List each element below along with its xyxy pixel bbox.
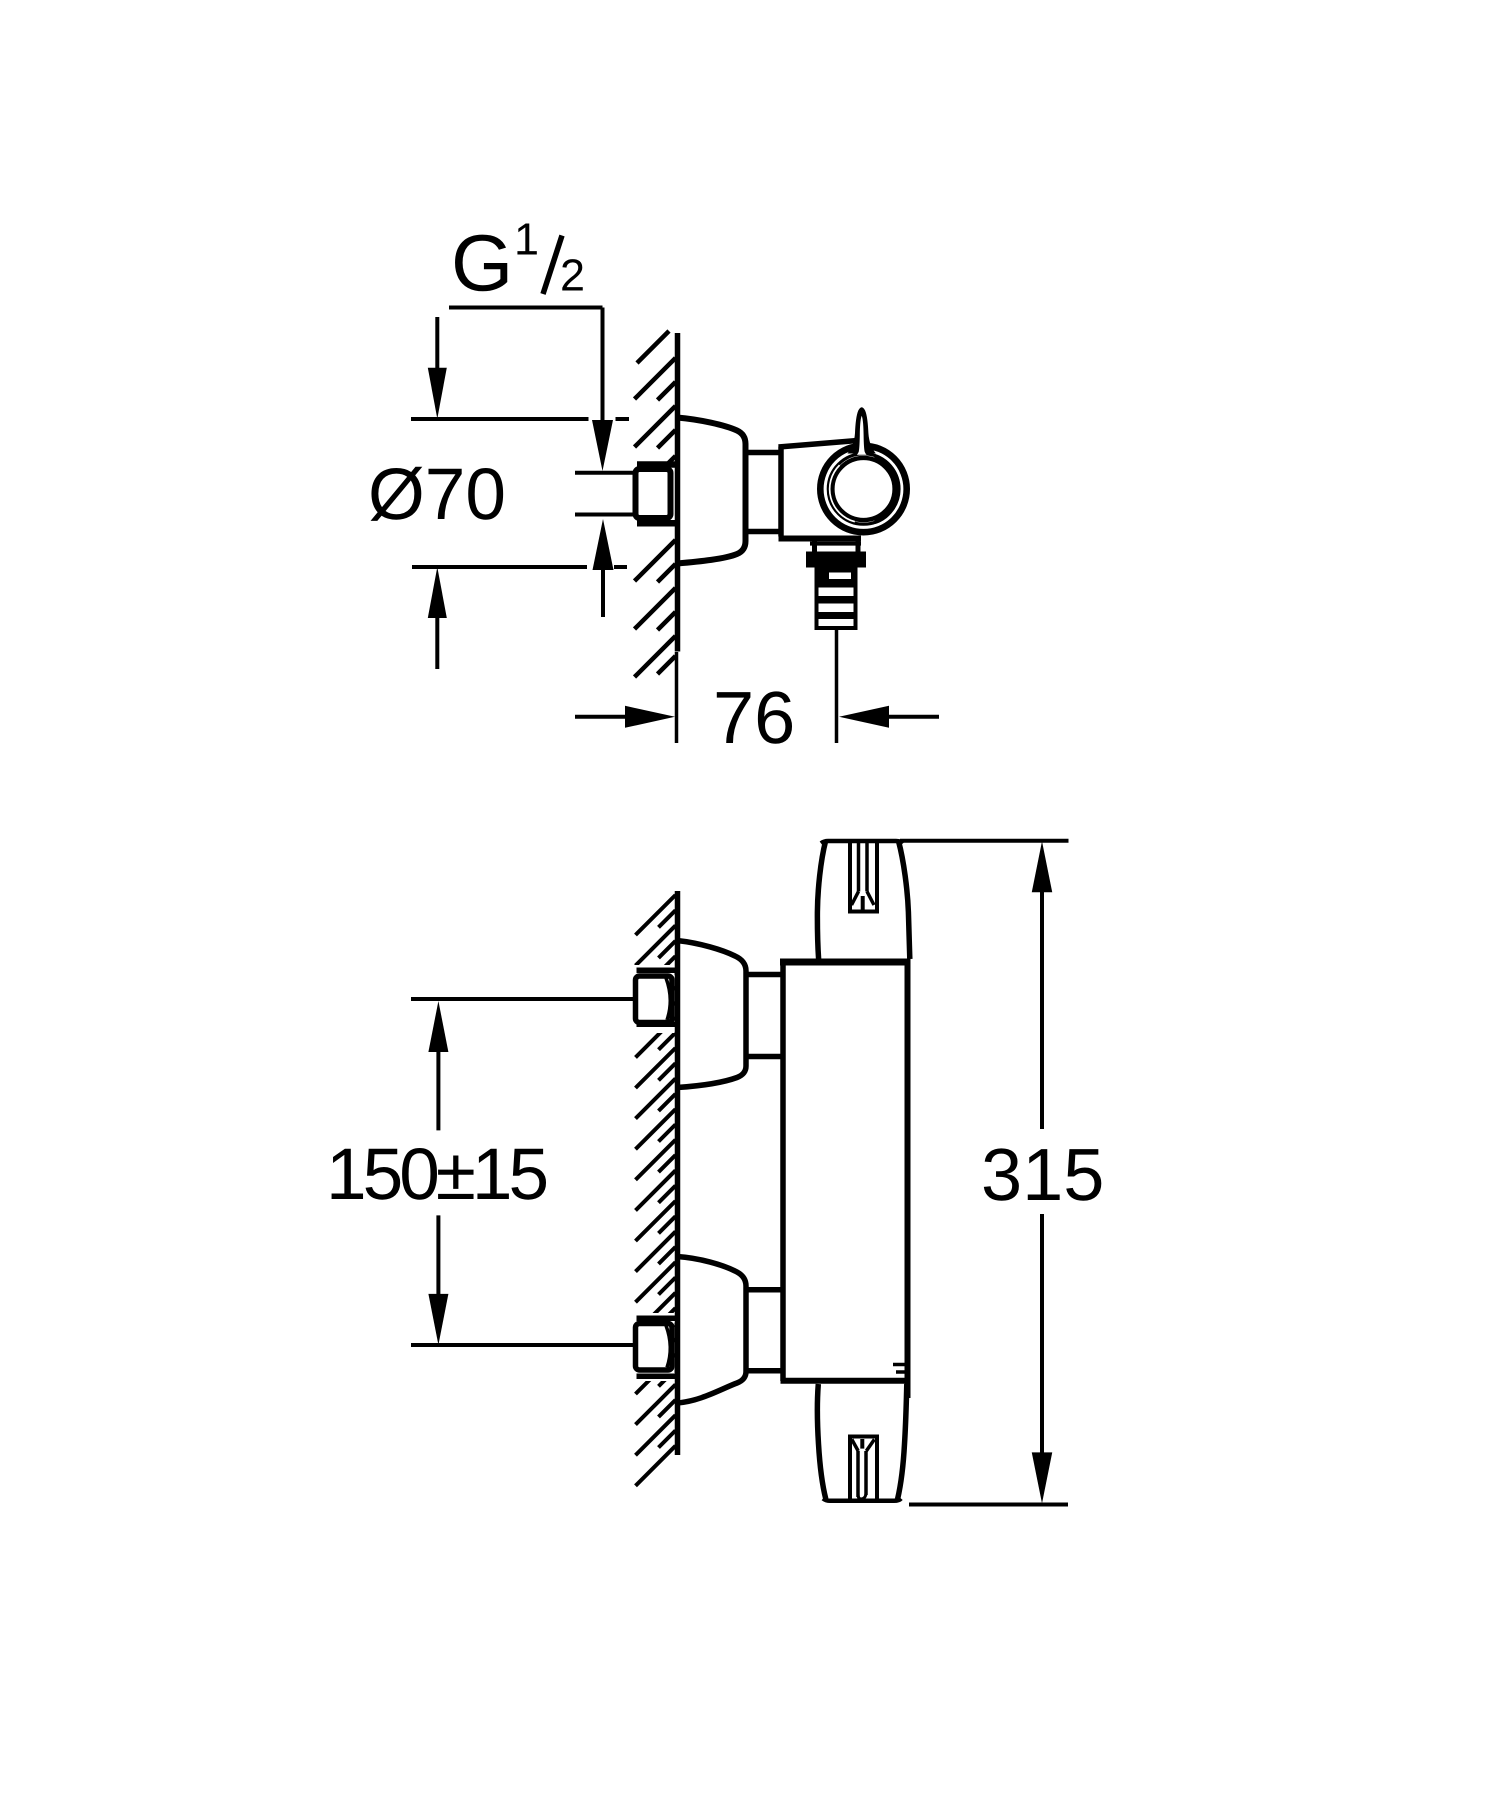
top view: hose barb connector xyxy=(815,568,858,631)
front view: top knob grip detail xyxy=(848,841,852,912)
front view: top knob (temperature handle) xyxy=(817,841,825,959)
svg-text:315: 315 xyxy=(981,1133,1104,1216)
front view: upper union nut flange bars xyxy=(637,968,678,974)
dimension 150±15 xyxy=(411,997,635,1001)
front view: valve body rectangle xyxy=(780,962,786,1381)
front view: lower union nut flange bars xyxy=(637,1316,678,1322)
svg-text:150±15: 150±15 xyxy=(326,1134,546,1215)
top view: outlet stub below body xyxy=(812,539,817,552)
top view: inner band merge on right side xyxy=(875,457,898,521)
front view: upper escutcheon dome edge behind nut xyxy=(666,978,670,1020)
top view: thin white split arc lower-left xyxy=(830,465,855,522)
top view: wall face line xyxy=(675,333,681,652)
front view: wall face line xyxy=(675,891,681,1455)
front view: clip mark on body right edge xyxy=(893,1363,906,1367)
front view: lower square union nut xyxy=(636,1324,673,1371)
front view: lower escutcheon dome edge behind nut xyxy=(666,1326,670,1368)
svg-text:G: G xyxy=(451,219,513,308)
top view: union nut flange bars xyxy=(637,461,677,468)
dimension line G 1/2 xyxy=(449,306,603,310)
dimension Ø70 arrows and extension lines xyxy=(435,317,439,372)
front view: upper square union nut xyxy=(636,976,673,1023)
front view: bottom knob grip detail xyxy=(848,1435,852,1501)
top view: S-union connector xyxy=(746,450,782,456)
top view: valve body xyxy=(778,447,784,537)
front view: wall hatching xyxy=(626,895,676,1486)
dimension 76 xyxy=(675,652,679,743)
front view: upper S-union xyxy=(746,972,783,978)
front view: upper escutcheon xyxy=(677,941,746,1088)
front view: lower S-union xyxy=(746,1287,783,1293)
top view: lever loop on top of ring xyxy=(848,407,876,453)
svg-text:1: 1 xyxy=(514,214,539,265)
dimension 315 xyxy=(900,839,1069,843)
top view: escutcheon cone xyxy=(677,418,746,564)
svg-text:76: 76 xyxy=(713,676,795,759)
front view: bottom knob xyxy=(817,1384,825,1499)
front view: lower escutcheon xyxy=(677,1257,746,1404)
svg-text:2: 2 xyxy=(560,250,585,301)
top view: square union nut xyxy=(636,469,671,518)
top view: supply pipe stub (G 1/2 nipple) xyxy=(575,471,637,475)
top view: handle ring outer xyxy=(820,446,906,532)
top view: outlet hex nut band xyxy=(806,552,866,568)
svg-text:Ø70: Ø70 xyxy=(368,454,506,535)
top view: handle ring inner band xyxy=(828,454,898,524)
top view: wall hatching xyxy=(626,331,676,677)
